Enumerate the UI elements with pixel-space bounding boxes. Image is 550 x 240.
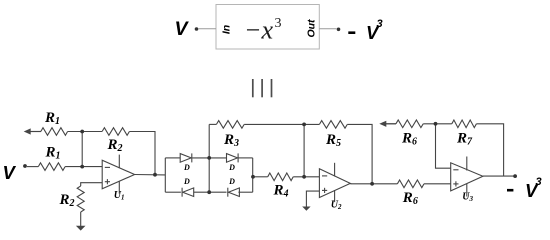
svg-text:D: D (183, 177, 190, 186)
svg-text:V: V (3, 162, 17, 183)
svg-text:−x: −x (244, 16, 274, 45)
svg-text:R6: R6 (402, 190, 418, 207)
svg-text:D: D (228, 177, 235, 186)
svg-text:In: In (220, 25, 232, 34)
svg-text:V: V (175, 18, 190, 40)
svg-text:R3: R3 (223, 132, 239, 149)
svg-text:R1: R1 (45, 145, 61, 162)
svg-text:U2: U2 (331, 200, 342, 212)
svg-text:Out: Out (305, 19, 317, 38)
svg-text:D: D (228, 163, 235, 172)
svg-text:R2: R2 (107, 137, 123, 154)
svg-text:R1: R1 (44, 110, 60, 127)
svg-text:U3: U3 (462, 192, 473, 204)
svg-text:U1: U1 (114, 190, 125, 202)
svg-text:R7: R7 (456, 130, 473, 147)
svg-text:3: 3 (536, 176, 542, 188)
svg-text:D: D (183, 163, 190, 172)
svg-text:R4: R4 (273, 182, 289, 199)
svg-text:3: 3 (377, 18, 383, 30)
svg-text:R5: R5 (325, 132, 341, 149)
svg-text:3: 3 (275, 16, 282, 31)
svg-text:R2: R2 (59, 192, 75, 209)
svg-text:R6: R6 (401, 130, 417, 147)
